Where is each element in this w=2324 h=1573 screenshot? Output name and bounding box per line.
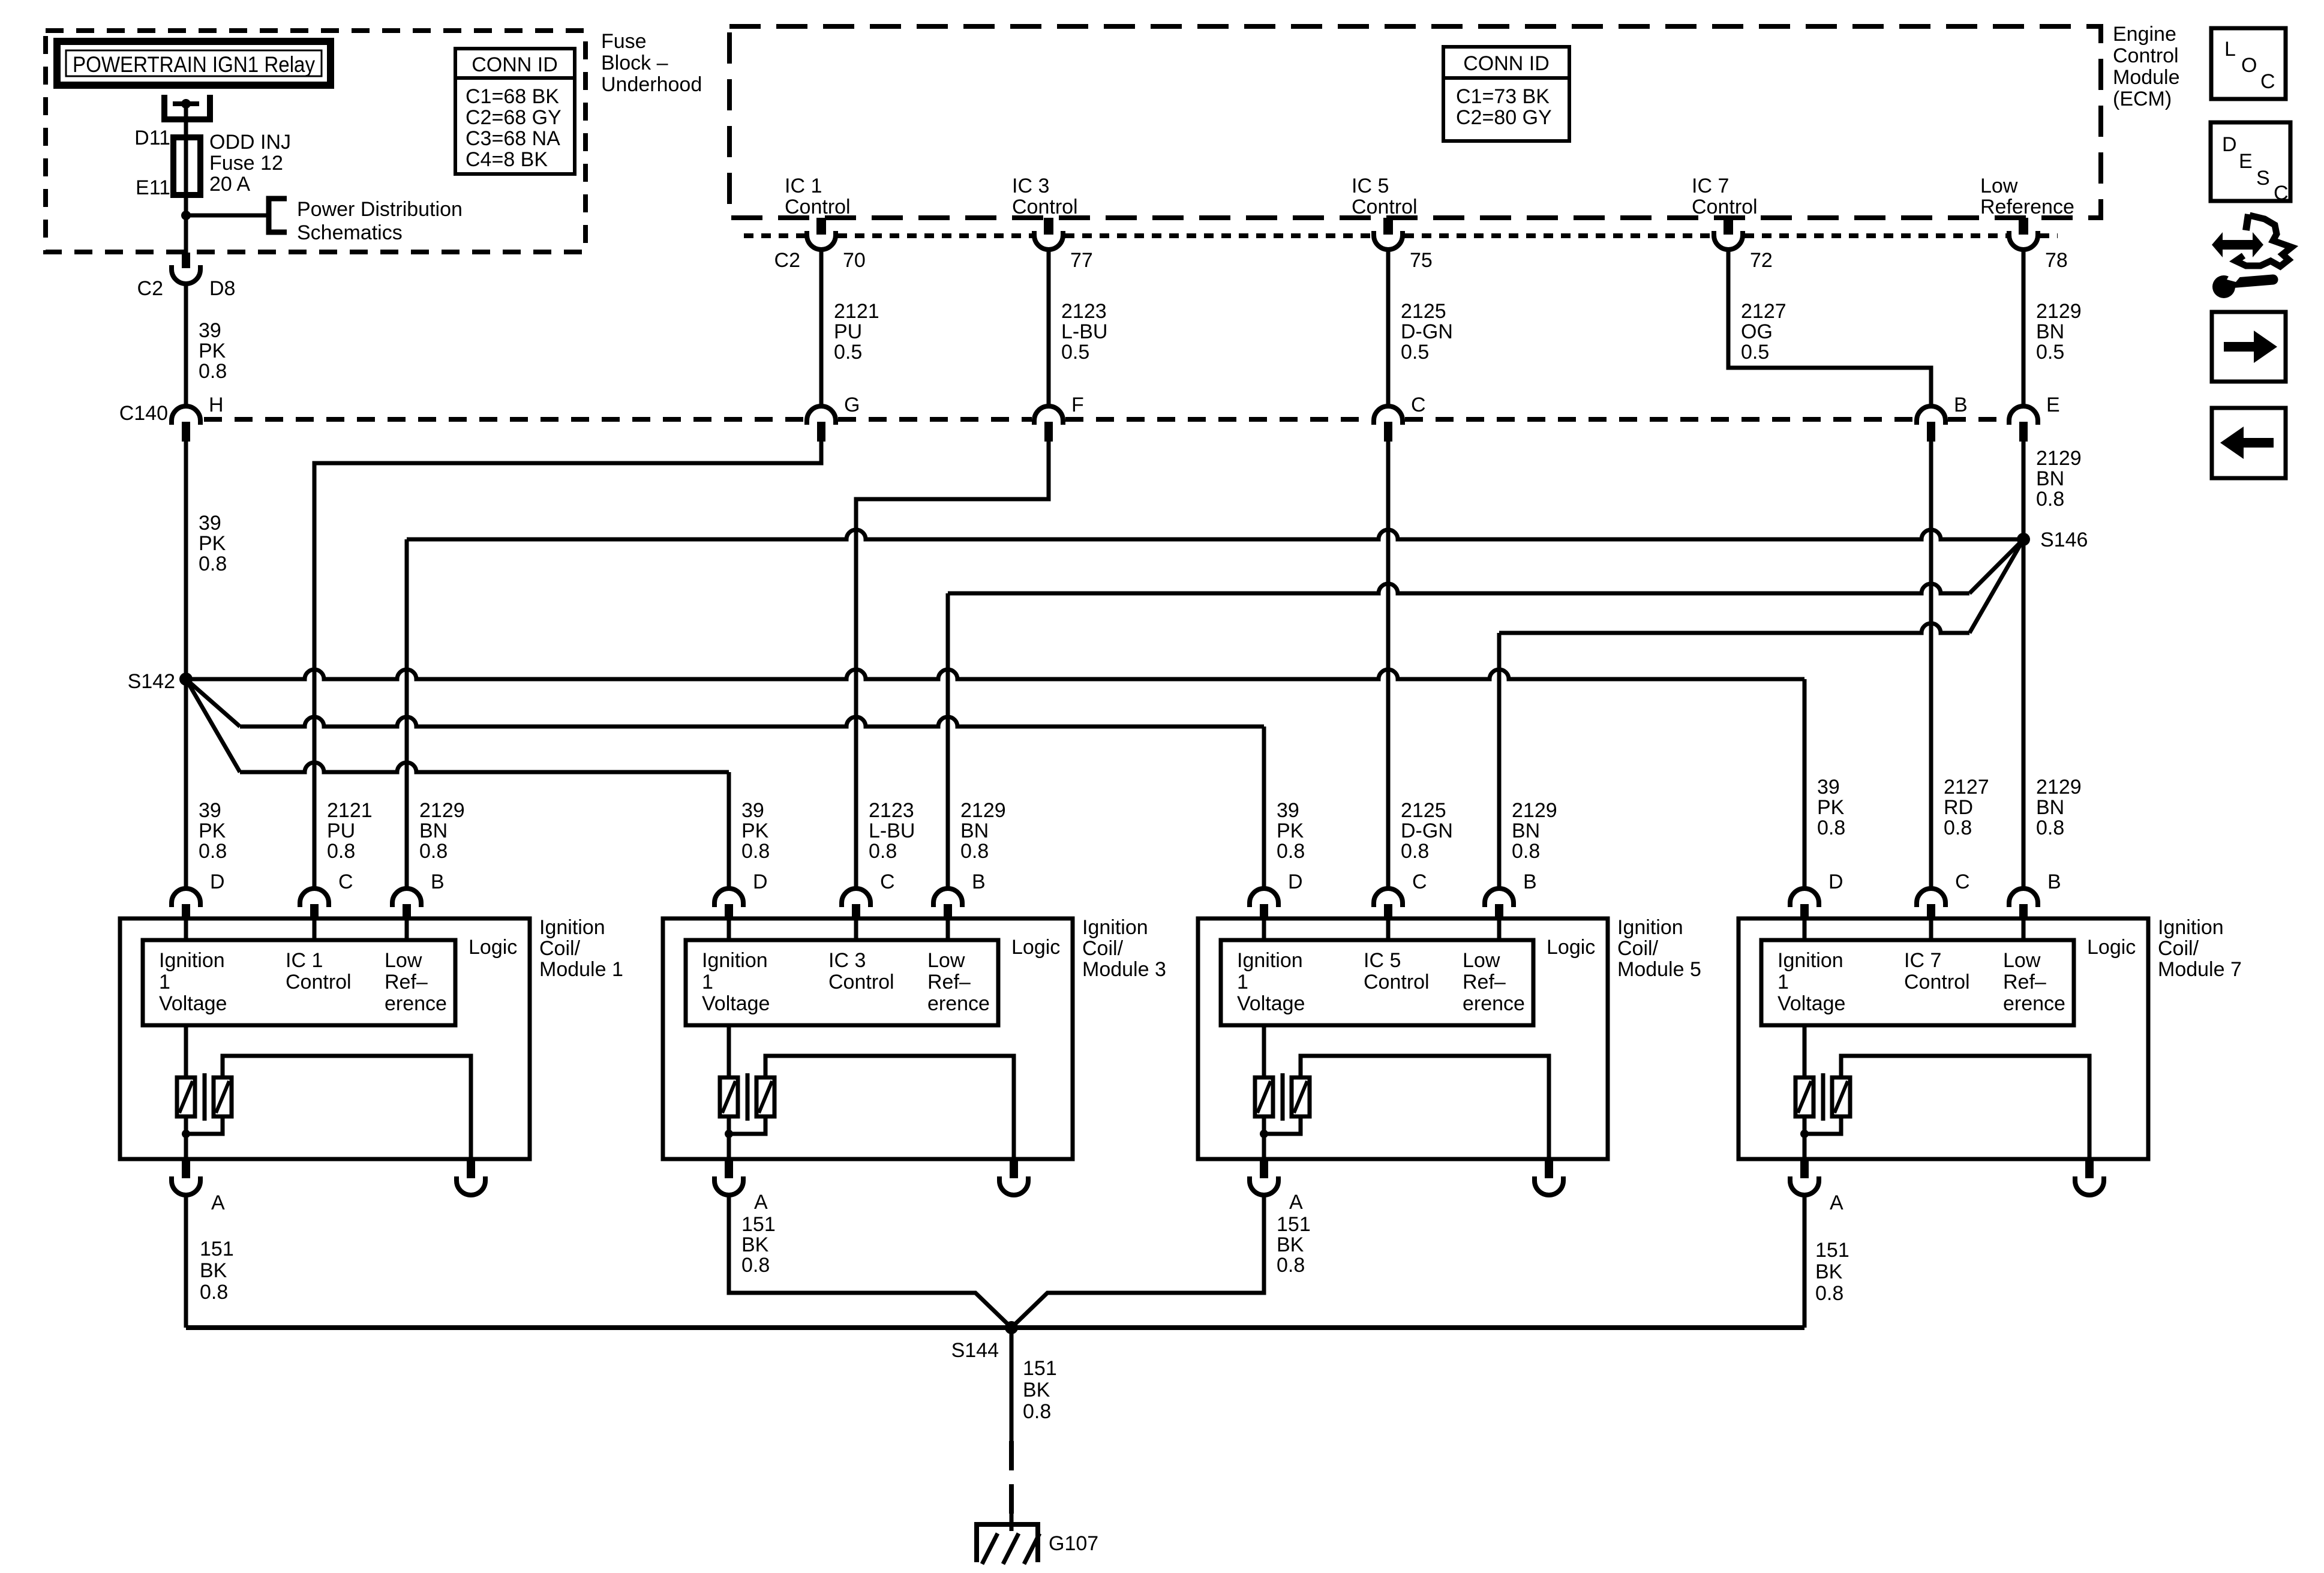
- coil 3 secondary to spark output wire: [765, 1056, 1014, 1160]
- pin stub wires into logic block 3: [727, 920, 731, 940]
- svg-text:39: 39: [199, 319, 221, 342]
- coil 1 winding common junction: [184, 1116, 188, 1160]
- connector C2 D8 at fuse block output: [182, 253, 190, 268]
- svg-text:Ref–: Ref–: [385, 971, 428, 993]
- svg-text:39: 39: [199, 512, 221, 535]
- svg-text:C: C: [880, 870, 895, 893]
- ground G107 symbol: [1010, 1512, 1014, 1531]
- module 1 pin A connector: [182, 1160, 190, 1178]
- svg-text:BN: BN: [960, 819, 989, 842]
- svg-text:BN: BN: [2036, 796, 2064, 819]
- ignition coil/module 7 logic block: [1761, 940, 2074, 1025]
- wire 151 BK 0.8 S144 to ground: [1010, 1328, 1014, 1441]
- svg-text:2129: 2129: [960, 799, 1006, 822]
- svg-text:BN: BN: [2036, 320, 2064, 343]
- ignition coil/module 5 pin C connector: [1374, 888, 1403, 907]
- module 5 pin A connector: [1260, 1160, 1268, 1178]
- connector C140 pin B: [1917, 406, 1945, 425]
- svg-text:A: A: [211, 1191, 225, 1214]
- svg-text:39: 39: [199, 799, 221, 822]
- svg-text:D-GN: D-GN: [1401, 320, 1453, 343]
- ignition coil/module 1 pin C connector: [300, 888, 329, 907]
- ignition coil/module 3 pin B connector: [933, 888, 962, 907]
- wire 151 BK 0.8 module 1 pin A down: [184, 1195, 188, 1328]
- ignition coil 3 secondary winding: [756, 1077, 774, 1116]
- coil 5 secondary to spark output wire: [1301, 1056, 1549, 1160]
- svg-text:B: B: [1954, 394, 1968, 416]
- LOC icon box: [2211, 28, 2286, 99]
- svg-text:S146: S146: [2040, 529, 2088, 551]
- svg-text:BK: BK: [1023, 1379, 1050, 1401]
- wire 39 PK 0.8 branch S142 to module 5 pin D: [186, 679, 240, 727]
- ignition coil 1 primary winding: [184, 1025, 188, 1077]
- svg-text:Control: Control: [1364, 971, 1430, 993]
- svg-text:Logic: Logic: [469, 936, 517, 959]
- svg-text:Control: Control: [1012, 196, 1078, 218]
- svg-text:2129: 2129: [419, 799, 465, 822]
- svg-text:Voltage: Voltage: [159, 992, 227, 1015]
- back arrow icon box: [2212, 408, 2286, 478]
- svg-text:CONN ID: CONN ID: [472, 53, 558, 76]
- svg-text:D: D: [2222, 133, 2237, 156]
- svg-text:E11: E11: [136, 176, 170, 199]
- svg-text:BK: BK: [200, 1259, 227, 1282]
- svg-text:erence: erence: [385, 992, 447, 1015]
- svg-text:C: C: [338, 870, 353, 893]
- ignition coil 1 core: [203, 1073, 207, 1121]
- splice S144: [1005, 1321, 1018, 1334]
- coil 5 winding common junction: [1262, 1116, 1266, 1160]
- ignition coil/module 3 outer box: [663, 918, 1073, 1159]
- ignition coil/module 7 outer box: [1739, 918, 2148, 1159]
- svg-text:IC 3: IC 3: [1012, 175, 1049, 197]
- svg-text:A: A: [1830, 1191, 1843, 1214]
- relay K: POWERTRAIN IGN1 Relay title box: [57, 41, 331, 85]
- svg-text:0.8: 0.8: [1277, 840, 1305, 863]
- svg-text:B: B: [2047, 870, 2061, 893]
- ignition coil/module 5 logic block: [1221, 940, 1533, 1025]
- splice S142: [179, 673, 193, 686]
- junction node in fuse block: [181, 211, 191, 220]
- svg-text:0.8: 0.8: [327, 840, 355, 863]
- svg-text:PU: PU: [834, 320, 862, 343]
- svg-text:2129: 2129: [2036, 776, 2082, 798]
- svg-text:39: 39: [1277, 799, 1299, 822]
- svg-text:2123: 2123: [1061, 300, 1107, 323]
- svg-text:D: D: [1288, 870, 1303, 893]
- svg-text:2125: 2125: [1401, 300, 1446, 323]
- svg-text:39: 39: [1817, 776, 1840, 798]
- svg-text:L-BU: L-BU: [1061, 320, 1107, 343]
- svg-text:C: C: [2274, 182, 2289, 205]
- ignition coil/module 5 pin D connector: [1250, 888, 1278, 907]
- svg-text:151: 151: [1023, 1357, 1057, 1380]
- svg-text:0.8: 0.8: [960, 840, 989, 863]
- wire 2129 BN 0.8 branch S146 to module 5 pin B: [1969, 539, 2023, 633]
- wire 151 BK 0.8 module 3 pin A to S144: [729, 1195, 1011, 1328]
- svg-text:72: 72: [1750, 249, 1773, 272]
- coil 1 secondary to spark output wire: [223, 1056, 471, 1160]
- svg-text:PU: PU: [327, 819, 355, 842]
- svg-text:0.5: 0.5: [1401, 341, 1429, 364]
- splice S146: [2017, 533, 2030, 546]
- svg-text:1: 1: [159, 971, 170, 993]
- svg-text:BN: BN: [419, 819, 448, 842]
- svg-text:Power Distribution: Power Distribution: [297, 198, 463, 221]
- svg-text:Control: Control: [828, 971, 894, 993]
- svg-text:Logic: Logic: [2087, 936, 2136, 959]
- svg-text:Ref–: Ref–: [1463, 971, 1506, 993]
- svg-text:PK: PK: [199, 340, 226, 362]
- svg-text:2129: 2129: [1512, 799, 1557, 822]
- svg-text:Control: Control: [785, 196, 851, 218]
- svg-text:0.8: 0.8: [419, 840, 448, 863]
- ECM connector row C2 dotted line: [744, 233, 805, 238]
- svg-text:A: A: [1289, 1191, 1303, 1214]
- svg-text:(ECM): (ECM): [2113, 88, 2172, 110]
- module 1 spark plug output connector: [467, 1160, 475, 1178]
- wire fuse to junction: [184, 195, 188, 253]
- svg-text:151: 151: [1277, 1213, 1311, 1236]
- svg-text:C1=68 BK: C1=68 BK: [466, 85, 559, 108]
- svg-text:C: C: [1412, 870, 1427, 893]
- wire 2123 L-BU 0.8 jog from C140 F to module 3 pin C: [856, 442, 1049, 888]
- svg-text:PK: PK: [199, 532, 226, 555]
- svg-text:BK: BK: [741, 1233, 769, 1256]
- svg-text:IC 7: IC 7: [1904, 949, 1941, 972]
- connector C140 pin F: [1034, 406, 1063, 425]
- svg-text:G: G: [844, 394, 860, 416]
- svg-text:Ignition: Ignition: [159, 949, 225, 972]
- svg-text:IC 7: IC 7: [1692, 175, 1729, 197]
- wire 39 PK 0.8 branch S142 to module 7 pin D: [186, 670, 1804, 679]
- power distribution schematics reference bracket: [269, 199, 287, 232]
- wire 2123 L-BU 0.5 (IC 3 control): [1047, 250, 1051, 406]
- wire 2121 PU 0.8 jog from C140 G to module 1 pin C: [314, 442, 821, 888]
- svg-text:Ref–: Ref–: [927, 971, 971, 993]
- svg-text:0.5: 0.5: [2036, 341, 2064, 364]
- ECM dashed enclosure: [729, 26, 2101, 218]
- ECM pin 75 connector (IC 5): [1383, 218, 1393, 235]
- svg-text:151: 151: [200, 1238, 234, 1260]
- svg-text:0.8: 0.8: [1817, 816, 1845, 839]
- ignition coil/module 1 logic block: [143, 940, 455, 1025]
- ignition coil 7 secondary winding: [1832, 1077, 1850, 1116]
- svg-text:1: 1: [702, 971, 713, 993]
- svg-text:erence: erence: [1463, 992, 1525, 1015]
- svg-text:A: A: [754, 1191, 768, 1214]
- svg-text:Logic: Logic: [1547, 936, 1595, 959]
- svg-text:C1=73 BK: C1=73 BK: [1456, 85, 1550, 108]
- ignition coil 3 core: [746, 1073, 750, 1121]
- fuse F12 ODD INJ 20A: [173, 137, 200, 195]
- ignition coil 5 core: [1281, 1073, 1285, 1121]
- svg-text:Ignition: Ignition: [2158, 916, 2224, 939]
- svg-text:Ignition: Ignition: [1777, 949, 1843, 972]
- svg-text:C: C: [1411, 394, 1426, 416]
- svg-text:D8: D8: [209, 277, 235, 300]
- svg-text:O: O: [2241, 54, 2257, 77]
- svg-text:C: C: [2260, 70, 2275, 93]
- svg-text:C2=80 GY: C2=80 GY: [1456, 106, 1552, 129]
- ignition coil/module 1 pin D connector: [172, 888, 200, 907]
- svg-text:C3=68 NA: C3=68 NA: [466, 127, 560, 150]
- svg-text:Engine: Engine: [2113, 23, 2176, 46]
- svg-text:0.8: 0.8: [741, 1254, 770, 1277]
- ignition coil/module 1 pin B connector: [392, 888, 421, 907]
- svg-text:75: 75: [1410, 249, 1433, 272]
- svg-text:Low: Low: [385, 949, 422, 972]
- wire 2127 OG 0.5 (IC 7 control, jogs right): [1728, 250, 1931, 406]
- ignition coil/module 3 pin D connector: [714, 888, 743, 907]
- svg-text:C2=68 GY: C2=68 GY: [466, 106, 562, 129]
- svg-text:erence: erence: [927, 992, 990, 1015]
- wire 39 PK 0.8 branch S142 to module 3 pin D: [186, 679, 240, 772]
- svg-text:PK: PK: [1277, 819, 1304, 842]
- svg-text:Underhood: Underhood: [601, 73, 702, 96]
- ignition coil/module 1 outer box: [120, 918, 530, 1159]
- svg-text:IC 5: IC 5: [1364, 949, 1401, 972]
- coil 7 secondary to spark output wire: [1841, 1056, 2089, 1160]
- svg-text:Fuse 12: Fuse 12: [209, 152, 283, 175]
- wire junction to power distribution reference: [186, 214, 269, 218]
- svg-text:Control: Control: [286, 971, 352, 993]
- ignition coil/module 3 logic block: [686, 940, 998, 1025]
- svg-text:Module 5: Module 5: [1617, 958, 1701, 981]
- svg-text:D11: D11: [134, 127, 170, 149]
- svg-text:L-BU: L-BU: [869, 819, 915, 842]
- svg-text:0.8: 0.8: [869, 840, 897, 863]
- wire 151 BK 0.8 module 5 pin A to S144: [1011, 1195, 1264, 1328]
- svg-text:G107: G107: [1049, 1532, 1098, 1555]
- svg-text:Control: Control: [1692, 196, 1758, 218]
- ignition coil 5 secondary winding: [1292, 1077, 1310, 1116]
- svg-text:E: E: [2239, 150, 2253, 173]
- svg-text:Ignition: Ignition: [1617, 916, 1683, 939]
- module 7 pin A connector: [1800, 1160, 1809, 1178]
- svg-text:BN: BN: [1512, 819, 1540, 842]
- dashed wire to G107: [1009, 1441, 1014, 1522]
- svg-text:Low: Low: [2003, 949, 2041, 972]
- ECM pin 78 connector (Low Reference): [2019, 218, 2028, 235]
- fuse block underhood dashed enclosure: [46, 31, 585, 252]
- svg-text:Reference: Reference: [1980, 196, 2074, 218]
- ECM pin 72 connector (IC 7): [1724, 218, 1733, 235]
- svg-text:D: D: [753, 870, 768, 893]
- svg-text:Ignition: Ignition: [702, 949, 768, 972]
- pin stub wires into logic block 7: [1803, 920, 1807, 940]
- svg-text:0.8: 0.8: [1023, 1400, 1051, 1423]
- ignition coil/module 3 pin C connector: [842, 888, 870, 907]
- wire 39 PK 0.8 from C140 H to S142 and module 1 pin D: [184, 442, 188, 888]
- svg-text:Module: Module: [2113, 66, 2180, 89]
- svg-text:Ignition: Ignition: [1237, 949, 1303, 972]
- svg-text:erence: erence: [2003, 992, 2065, 1015]
- module 3 pin A connector: [725, 1160, 733, 1178]
- svg-text:Control: Control: [1904, 971, 1970, 993]
- svg-text:0.5: 0.5: [1061, 341, 1089, 364]
- svg-text:BK: BK: [1815, 1260, 1843, 1283]
- svg-text:2121: 2121: [327, 799, 373, 822]
- module 7 spark plug output connector: [2085, 1160, 2094, 1178]
- svg-text:Ignition: Ignition: [1082, 916, 1148, 939]
- wire 39 PK 0.8 from fuse block to C140: [184, 284, 188, 406]
- svg-text:PK: PK: [741, 819, 769, 842]
- svg-text:B: B: [431, 870, 445, 893]
- module 5 spark plug output connector: [1545, 1160, 1553, 1178]
- svg-text:D-GN: D-GN: [1401, 819, 1453, 842]
- pin stub wires into logic block 5: [1262, 920, 1266, 940]
- svg-text:2129: 2129: [2036, 447, 2082, 470]
- wire 2129 BN 0.8 branch S146 to module 1 pin B: [407, 530, 2023, 539]
- svg-text:Control: Control: [1352, 196, 1418, 218]
- svg-text:Block –: Block –: [601, 52, 668, 74]
- svg-text:0.8: 0.8: [199, 840, 227, 863]
- svg-text:C4=8 BK: C4=8 BK: [466, 148, 548, 171]
- svg-text:S142: S142: [128, 670, 175, 693]
- svg-text:0.5: 0.5: [834, 341, 862, 364]
- svg-text:0.8: 0.8: [741, 840, 770, 863]
- svg-text:Voltage: Voltage: [702, 992, 770, 1015]
- svg-text:BK: BK: [1277, 1233, 1304, 1256]
- ECM CONN ID table: [1443, 47, 1569, 141]
- wire 2125 D-GN 0.8 from C140 C to module 5 pin C: [1386, 442, 1391, 888]
- svg-text:Low: Low: [1463, 949, 1500, 972]
- svg-text:Module 1: Module 1: [539, 958, 623, 981]
- svg-text:RD: RD: [1944, 796, 1973, 819]
- ignition coil/module 5 pin B connector: [1485, 888, 1514, 907]
- connector C140 pin C: [1374, 406, 1403, 425]
- svg-text:Schematics: Schematics: [297, 221, 403, 244]
- ignition coil/module 7 pin D connector: [1790, 888, 1819, 907]
- svg-text:ODD INJ: ODD INJ: [209, 131, 291, 154]
- ignition coil 5 primary winding: [1262, 1025, 1266, 1077]
- svg-text:B: B: [1523, 870, 1537, 893]
- svg-text:IC 3: IC 3: [828, 949, 866, 972]
- svg-text:0.8: 0.8: [199, 553, 227, 575]
- fuse block CONN ID table: [455, 49, 575, 174]
- svg-text:1: 1: [1777, 971, 1789, 993]
- svg-text:0.8: 0.8: [1401, 840, 1429, 863]
- svg-text:Voltage: Voltage: [1777, 992, 1845, 1015]
- coil 3 winding common junction: [727, 1116, 731, 1160]
- svg-text:0.8: 0.8: [1277, 1254, 1305, 1277]
- svg-text:Ignition: Ignition: [539, 916, 605, 939]
- svg-text:2127: 2127: [1741, 300, 1786, 323]
- ignition coil 1 secondary winding: [214, 1077, 232, 1116]
- service wrench icon: [2212, 232, 2263, 257]
- svg-text:39: 39: [741, 799, 764, 822]
- svg-text:151: 151: [741, 1213, 776, 1236]
- module 3 spark plug output connector: [1010, 1160, 1018, 1178]
- wire 2121 PU 0.5 (IC 1 control): [819, 250, 824, 406]
- svg-text:C140: C140: [119, 402, 168, 425]
- svg-text:20 A: 20 A: [209, 173, 250, 196]
- inline connector C140 dashed row: [204, 417, 804, 422]
- svg-text:C: C: [1955, 870, 1970, 893]
- svg-text:0.8: 0.8: [200, 1281, 228, 1304]
- svg-text:BN: BN: [2036, 467, 2064, 490]
- svg-text:PK: PK: [199, 819, 226, 842]
- svg-text:L: L: [2224, 38, 2236, 61]
- svg-text:PK: PK: [1817, 796, 1845, 819]
- wire 151 BK 0.8 module 7 pin A down: [1803, 1195, 1807, 1328]
- svg-text:1: 1: [1237, 971, 1248, 993]
- wire 2125 D-GN 0.5 (IC 5 control): [1386, 250, 1391, 406]
- coil 7 winding common junction: [1803, 1116, 1807, 1160]
- relay contact terminal symbol: [164, 95, 210, 119]
- forward arrow icon box: [2212, 312, 2286, 382]
- svg-text:D: D: [1828, 870, 1843, 893]
- svg-text:IC 1: IC 1: [785, 175, 822, 197]
- connector C140 pin E: [2009, 406, 2038, 425]
- ignition coil 7 primary winding: [1803, 1025, 1807, 1077]
- svg-text:C2: C2: [774, 249, 800, 272]
- svg-text:CONN ID: CONN ID: [1463, 52, 1550, 75]
- svg-text:Module 3: Module 3: [1082, 958, 1166, 981]
- DESC icon box: [2211, 122, 2290, 201]
- connector C140 pin G: [807, 406, 836, 425]
- svg-text:E: E: [2046, 394, 2060, 416]
- ECM pin 70 connector (IC 1): [816, 218, 826, 235]
- svg-text:Ref–: Ref–: [2003, 971, 2046, 993]
- wire 2129 BN 0.8 branch S146 to module 3 pin B: [1969, 539, 2023, 593]
- ignition coil/module 7 pin B connector: [2009, 888, 2038, 907]
- ignition coil 7 core: [1821, 1073, 1825, 1121]
- wire relay to fuse: [184, 104, 188, 137]
- ignition coil/module 7 pin C connector: [1917, 888, 1945, 907]
- svg-text:D: D: [210, 870, 225, 893]
- svg-text:78: 78: [2045, 249, 2068, 272]
- svg-text:H: H: [209, 394, 224, 416]
- svg-text:0.8: 0.8: [2036, 816, 2064, 839]
- svg-text:151: 151: [1815, 1239, 1849, 1262]
- svg-text:POWERTRAIN IGN1 Relay: POWERTRAIN IGN1 Relay: [73, 52, 315, 77]
- svg-text:Voltage: Voltage: [1237, 992, 1305, 1015]
- svg-text:Coil/: Coil/: [2158, 937, 2199, 960]
- svg-text:B: B: [972, 870, 986, 893]
- svg-text:S: S: [2256, 167, 2270, 190]
- svg-text:F: F: [1071, 394, 1084, 416]
- svg-text:0.8: 0.8: [1512, 840, 1540, 863]
- svg-text:Control: Control: [2113, 44, 2179, 67]
- pin stub wires into logic block 1: [184, 920, 188, 940]
- svg-text:Coil/: Coil/: [539, 937, 581, 960]
- svg-text:Coil/: Coil/: [1082, 937, 1124, 960]
- svg-text:Logic: Logic: [1011, 936, 1060, 959]
- svg-text:2123: 2123: [869, 799, 914, 822]
- svg-text:IC 5: IC 5: [1352, 175, 1389, 197]
- svg-text:Coil/: Coil/: [1617, 937, 1659, 960]
- svg-text:S144: S144: [951, 1339, 999, 1362]
- ECM pin 77 connector (IC 3): [1044, 218, 1053, 235]
- svg-text:Low: Low: [927, 949, 965, 972]
- svg-text:70: 70: [843, 249, 866, 272]
- svg-text:0.5: 0.5: [1741, 341, 1769, 364]
- svg-text:0.8: 0.8: [2036, 488, 2064, 511]
- svg-text:Fuse: Fuse: [601, 30, 647, 53]
- connector C140 pin H: [172, 406, 200, 425]
- wire 2127 RD 0.8 from C140 B to module 7 pin C: [1929, 442, 1933, 888]
- svg-text:2129: 2129: [2036, 300, 2082, 323]
- wire 151 BK 0.8 ground bus: [186, 1325, 1804, 1330]
- svg-text:C2: C2: [137, 277, 163, 300]
- ignition coil/module 5 outer box: [1198, 918, 1608, 1159]
- svg-text:0.8: 0.8: [199, 360, 227, 383]
- svg-text:77: 77: [1070, 249, 1093, 272]
- svg-text:0.8: 0.8: [1815, 1282, 1843, 1305]
- svg-text:2127: 2127: [1944, 776, 1989, 798]
